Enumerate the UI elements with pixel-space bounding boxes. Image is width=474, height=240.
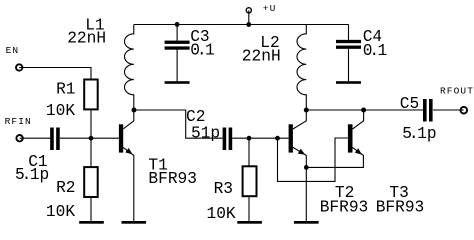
svg-text:R3: R3 bbox=[214, 180, 233, 198]
svg-text:10K: 10K bbox=[46, 102, 75, 120]
svg-text:EN: EN bbox=[6, 45, 20, 56]
svg-text:5.1p: 5.1p bbox=[402, 125, 436, 143]
svg-text:R2: R2 bbox=[56, 179, 75, 197]
svg-text:RFOUT: RFOUT bbox=[440, 86, 474, 97]
svg-text:10K: 10K bbox=[46, 203, 75, 221]
svg-text:0.1: 0.1 bbox=[190, 42, 215, 60]
svg-text:C5: C5 bbox=[400, 95, 419, 113]
svg-text:BFR93: BFR93 bbox=[148, 170, 197, 188]
svg-text:+U: +U bbox=[263, 3, 277, 14]
svg-text:BFR93: BFR93 bbox=[376, 199, 425, 217]
svg-text:RFIN: RFIN bbox=[5, 116, 32, 127]
svg-text:51p: 51p bbox=[191, 124, 220, 142]
svg-text:R1: R1 bbox=[56, 80, 75, 98]
svg-text:BFR93: BFR93 bbox=[320, 199, 369, 217]
svg-text:0.1: 0.1 bbox=[363, 42, 388, 60]
svg-text:5.1p: 5.1p bbox=[15, 166, 49, 184]
svg-text:22nH: 22nH bbox=[242, 48, 281, 66]
svg-text:10K: 10K bbox=[207, 205, 236, 223]
svg-text:22nH: 22nH bbox=[67, 29, 106, 47]
